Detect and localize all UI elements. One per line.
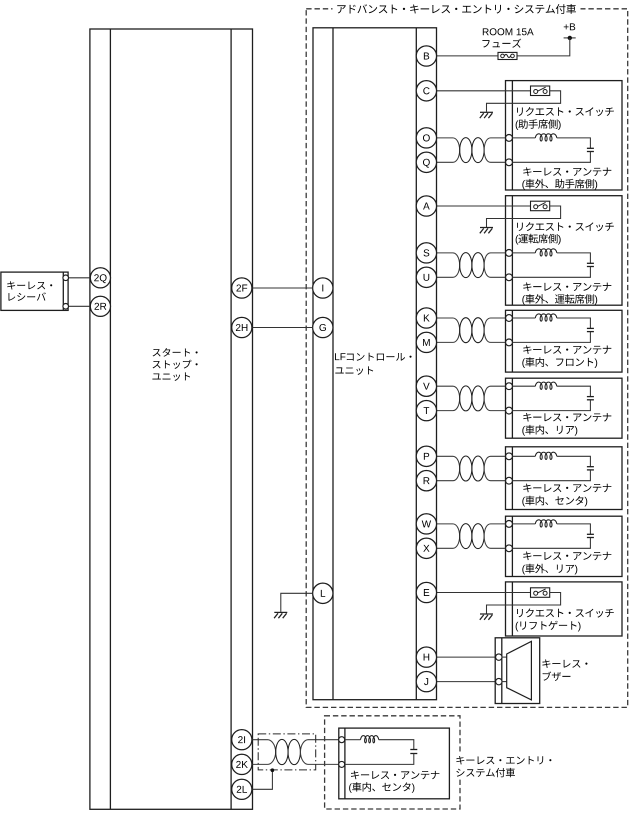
wire antenna ANT4 (in-car rear) loop right xyxy=(557,386,591,396)
label keyless entry system line1 xyxy=(456,756,551,764)
request switch SW2 (driver side) xyxy=(531,201,550,211)
label request switch SW3 (liftgate) line1 xyxy=(517,608,614,617)
connector pin (antenna ANT1 (outside passenger), upper) xyxy=(506,135,513,142)
wire request switch SW3 (liftgate) return to ground xyxy=(487,593,561,614)
wire antenna ANT3 (in-car front) loop bottom xyxy=(512,332,590,343)
fuse label fuse(kana) xyxy=(482,39,521,48)
label start-stop unit line3 xyxy=(152,372,190,380)
label keyless buzzer line1 xyxy=(542,659,587,668)
connector pin (buzzer, upper) xyxy=(496,654,502,660)
terminal 2F (start-stop unit) xyxy=(232,278,252,298)
wire antenna ANT3 (in-car front) loop top-left xyxy=(512,317,535,319)
wire bottom antenna loop top-left xyxy=(345,739,361,741)
wire terminal L to ground xyxy=(281,593,313,612)
terminal Q (LF control unit) xyxy=(416,152,436,172)
request switch SW1 (passenger side) xyxy=(531,86,550,96)
wire antenna ANT1 (outside passenger) loop bottom xyxy=(512,152,590,163)
twisted pair to keyless antenna ANT2 (outside driver) xyxy=(437,253,506,278)
wire antenna ANT5 (in-car center) loop bottom xyxy=(512,470,590,481)
connector pin (antenna ANT1 (outside passenger), lower) xyxy=(506,159,513,166)
box request switch + keyless antenna (driver) xyxy=(506,196,623,306)
inductor (keyless antenna ANT1 (outside passenger)) xyxy=(535,134,557,141)
connector pin (antenna ANT3 (in-car front), upper) xyxy=(506,315,513,322)
label request switch SW1 (passenger side) line2 xyxy=(516,119,561,130)
terminal K (LF control unit) xyxy=(416,308,436,328)
twisted pair to keyless antenna ANT5 (in-car center) xyxy=(437,456,506,481)
connector pin (buzzer, lower) xyxy=(496,678,502,684)
dashed enclosure: keyless entry system (bottom) xyxy=(325,716,460,809)
terminal S (LF control unit) xyxy=(416,243,436,263)
terminal 2I (start-stop unit) xyxy=(232,730,252,750)
keyless receiver box xyxy=(1,272,68,310)
connector pin (antenna ANT2 (outside driver), upper) xyxy=(506,250,513,257)
wire 2H to G xyxy=(253,327,314,329)
terminal A (LF control unit) xyxy=(416,196,436,216)
wire receiver to 2Q xyxy=(68,277,90,279)
wire antenna ANT1 (outside passenger) loop top-left xyxy=(512,137,535,139)
wire receiver to 2R xyxy=(68,305,90,307)
label keyless antenna ANT3 (in-car front) line1 xyxy=(523,345,611,354)
wire antenna ANT6 (outside rear) loop bottom xyxy=(512,538,590,549)
twisted pair to bottom keyless antenna xyxy=(253,739,339,764)
connector pin (bottom antenna, upper) xyxy=(339,737,345,743)
fuse label ROOM 15A xyxy=(483,28,534,35)
inductor (keyless antenna ANT6 (outside rear)) xyxy=(535,520,557,527)
label LF unit latin xyxy=(335,353,345,360)
box keyless antenna (in-car center) xyxy=(506,447,623,510)
wire antenna ANT4 (in-car rear) loop top-left xyxy=(512,385,535,387)
label start-stop unit line2 xyxy=(153,360,198,369)
capacitor (keyless antenna ANT2 (outside driver)) xyxy=(587,263,594,266)
ground (request switch SW3 (liftgate)) xyxy=(480,614,493,620)
connector pin (antenna ANT2 (outside driver), lower) xyxy=(506,274,513,281)
terminal I (LF control unit left) xyxy=(313,278,333,298)
wire terminal J to buzzer xyxy=(437,681,496,683)
terminal V (LF control unit) xyxy=(416,376,436,396)
speaker symbol (keyless buzzer) xyxy=(507,641,532,700)
title advanced keyless entry system xyxy=(337,4,576,14)
label keyless antenna ANT5 (in-car center) line1 xyxy=(523,484,611,493)
terminal L (LF control unit left) xyxy=(313,583,333,603)
connector pin (antenna ANT6 (outside rear), upper) xyxy=(506,521,513,528)
inductor (bottom keyless antenna) xyxy=(361,736,379,743)
label request switch SW2 (driver side) line1 xyxy=(517,222,614,231)
inductor (keyless antenna ANT4 (in-car rear)) xyxy=(535,382,557,389)
inductor (keyless antenna ANT2 (outside driver)) xyxy=(535,249,557,256)
label keyless antenna ANT2 (outside driver) line1 xyxy=(523,282,611,291)
label keyless antenna ANT6 (outside rear) line1 xyxy=(523,552,611,561)
box keyless antenna (in-car front) xyxy=(506,310,623,372)
wire antenna ANT6 (outside rear) loop right xyxy=(557,524,591,534)
wire terminal to request switch SW1 (passenger side) xyxy=(437,90,531,92)
terminal O (LF control unit) xyxy=(416,128,436,148)
terminal 2H (start-stop unit) xyxy=(232,317,252,337)
label bottom antenna line2 xyxy=(349,782,414,793)
label keyless buzzer line2 xyxy=(543,672,571,681)
box request switch + keyless antenna (passenger) xyxy=(506,81,623,190)
terminal C (LF control unit) xyxy=(416,81,436,101)
box keyless antenna (in-car rear) xyxy=(506,378,623,438)
twisted pair to keyless antenna ANT1 (outside passenger) xyxy=(437,138,506,163)
connector pin (bottom antenna, lower) xyxy=(339,761,345,767)
capacitor (keyless antenna ANT4 (in-car rear)) xyxy=(587,397,594,400)
terminal G (LF control unit left) xyxy=(313,317,333,337)
wire terminal to request switch SW2 (driver side) xyxy=(437,205,531,207)
start-stop unit box xyxy=(90,29,253,809)
connector pin (antenna ANT4 (in-car rear), lower) xyxy=(506,407,513,414)
terminal 2L (start-stop unit) xyxy=(232,779,252,799)
wire antenna ANT3 (in-car front) loop right xyxy=(557,318,591,328)
inductor (keyless antenna ANT3 (in-car front)) xyxy=(535,314,557,321)
connector pin (antenna ANT5 (in-car center), lower) xyxy=(506,477,513,484)
connector pin (antenna ANT5 (in-car center), upper) xyxy=(506,453,513,460)
wire +B to fuse xyxy=(517,38,570,56)
terminal E (LF control unit) xyxy=(416,582,436,602)
label keyless antenna ANT6 (outside rear) line2 xyxy=(522,564,577,575)
terminal B (LF control unit) xyxy=(416,46,436,66)
inductor (keyless antenna ANT5 (in-car center)) xyxy=(535,452,557,459)
capacitor (keyless antenna ANT3 (in-car front)) xyxy=(587,328,594,331)
label keyless entry system line2 xyxy=(456,768,515,777)
wire antenna ANT4 (in-car rear) loop bottom xyxy=(512,400,590,411)
wire antenna ANT2 (outside driver) loop right xyxy=(557,253,591,263)
label keyless antenna ANT3 (in-car front) line2 xyxy=(522,357,597,368)
twisted pair to keyless antenna ANT6 (outside rear) xyxy=(437,524,506,549)
wire antenna ANT2 (outside driver) loop bottom xyxy=(512,267,590,278)
label start-stop unit line1 xyxy=(153,348,198,357)
fuse ROOM 15A symbol xyxy=(498,52,517,59)
keyless antenna box (in-car center, keyless entry system) xyxy=(339,728,450,799)
wire antenna ANT1 (outside passenger) loop right xyxy=(557,138,591,148)
label keyless antenna ANT1 (outside passenger) line2 xyxy=(522,179,597,190)
box request switch (liftgate) xyxy=(506,582,623,636)
box keyless antenna (outside rear) xyxy=(506,516,623,576)
connector pin (antenna ANT3 (in-car front), lower) xyxy=(506,339,513,346)
capacitor (keyless antenna ANT5 (in-car center)) xyxy=(587,467,594,470)
node +B terminal bar xyxy=(564,37,576,39)
connector pin (antenna ANT4 (in-car rear), upper) xyxy=(506,383,513,390)
connector pin (receiver, lower) xyxy=(63,304,69,310)
twisted pair to keyless antenna ANT4 (in-car rear) xyxy=(437,386,506,411)
terminal T (LF control unit) xyxy=(416,400,436,420)
terminal M (LF control unit) xyxy=(416,332,436,352)
wire antenna ANT6 (outside rear) loop top-left xyxy=(512,523,535,525)
wire request switch SW2 (driver side) return to ground xyxy=(487,206,561,227)
node +B label xyxy=(564,23,575,30)
terminal 2K (start-stop unit) xyxy=(232,754,252,774)
terminal R (LF control unit) xyxy=(416,471,436,491)
request switch SW3 (liftgate) xyxy=(531,588,550,598)
shield (dash-dot) around twisted pair xyxy=(258,734,316,770)
wire bottom antenna loop right xyxy=(379,740,414,750)
ground (terminal L) xyxy=(274,612,287,618)
keyless buzzer box xyxy=(495,638,540,704)
twisted pair to keyless antenna ANT3 (in-car front) xyxy=(437,318,506,343)
terminal U (LF control unit) xyxy=(416,267,436,287)
junction dot 2L-shield xyxy=(271,768,275,772)
wire antenna ANT5 (in-car center) loop right xyxy=(557,456,591,466)
label keyless receiver line2 xyxy=(8,292,45,300)
wire request switch SW1 (passenger side) return to ground xyxy=(487,91,561,112)
label LF unit line2 xyxy=(335,366,373,375)
label bottom antenna line1 xyxy=(351,771,439,780)
wire bottom antenna loop bottom xyxy=(345,754,414,765)
label keyless antenna ANT1 (outside passenger) line1 xyxy=(523,167,611,176)
label LF unit line1 kana xyxy=(347,353,412,361)
label request switch SW3 (liftgate) line2 xyxy=(516,621,581,632)
ground (request switch SW2 (driver side)) xyxy=(480,228,493,234)
label request switch SW2 (driver side) line2 xyxy=(516,234,561,245)
wire terminal to request switch SW3 (liftgate) xyxy=(437,592,531,594)
label keyless antenna ANT5 (in-car center) line2 xyxy=(522,496,587,507)
capacitor (keyless antenna ANT6 (outside rear)) xyxy=(587,534,594,537)
capacitor (keyless antenna ANT1 (outside passenger)) xyxy=(587,148,594,151)
connector pin (antenna ANT6 (outside rear), lower) xyxy=(506,545,513,552)
label keyless antenna ANT2 (outside driver) line2 xyxy=(522,294,597,305)
wire antenna ANT5 (in-car center) loop top-left xyxy=(512,455,535,457)
LF control unit box xyxy=(313,28,437,700)
terminal W (LF control unit) xyxy=(416,514,436,534)
node +B junction dot xyxy=(568,36,572,40)
wire terminal H to buzzer xyxy=(437,656,496,658)
title mask top xyxy=(333,3,581,16)
terminal 2Q (start-stop unit) xyxy=(90,268,110,288)
dashed enclosure: advanced keyless entry system xyxy=(306,9,628,708)
ground (request switch SW1 (passenger side)) xyxy=(480,112,493,118)
wire buzzer pin J stub xyxy=(502,681,507,683)
connector pin (receiver, upper) xyxy=(63,275,69,281)
terminal P (LF control unit) xyxy=(416,446,436,466)
wire 2L to shield xyxy=(253,771,273,790)
label keyless antenna ANT4 (in-car rear) line2 xyxy=(522,425,577,436)
terminal X (LF control unit) xyxy=(416,538,436,558)
label mask bottom-right xyxy=(452,752,558,780)
terminal H (LF control unit) xyxy=(416,647,436,667)
wire fuse to terminal B xyxy=(437,55,499,57)
wire 2F to I xyxy=(253,287,314,289)
label keyless receiver line1 xyxy=(7,281,52,289)
label request switch SW1 (passenger side) line1 xyxy=(517,107,614,116)
terminal 2R (start-stop unit) xyxy=(90,296,110,316)
terminal J (LF control unit) xyxy=(416,671,436,691)
capacitor (bottom keyless antenna) xyxy=(410,750,417,754)
wire buzzer pin H stub xyxy=(502,656,507,658)
label keyless antenna ANT4 (in-car rear) line1 xyxy=(523,413,611,422)
wire antenna ANT2 (outside driver) loop top-left xyxy=(512,252,535,254)
